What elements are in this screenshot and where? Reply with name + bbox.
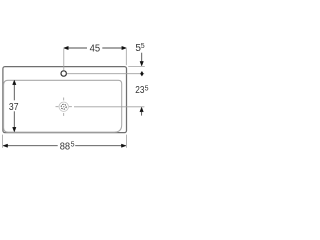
svg-text:5: 5 [71, 141, 75, 148]
svg-text:5: 5 [145, 85, 149, 92]
svg-text:88: 88 [60, 142, 71, 153]
svg-text:45: 45 [90, 44, 101, 55]
svg-text:5: 5 [141, 43, 145, 50]
svg-text:37: 37 [9, 102, 19, 113]
svg-text:23: 23 [135, 85, 145, 96]
